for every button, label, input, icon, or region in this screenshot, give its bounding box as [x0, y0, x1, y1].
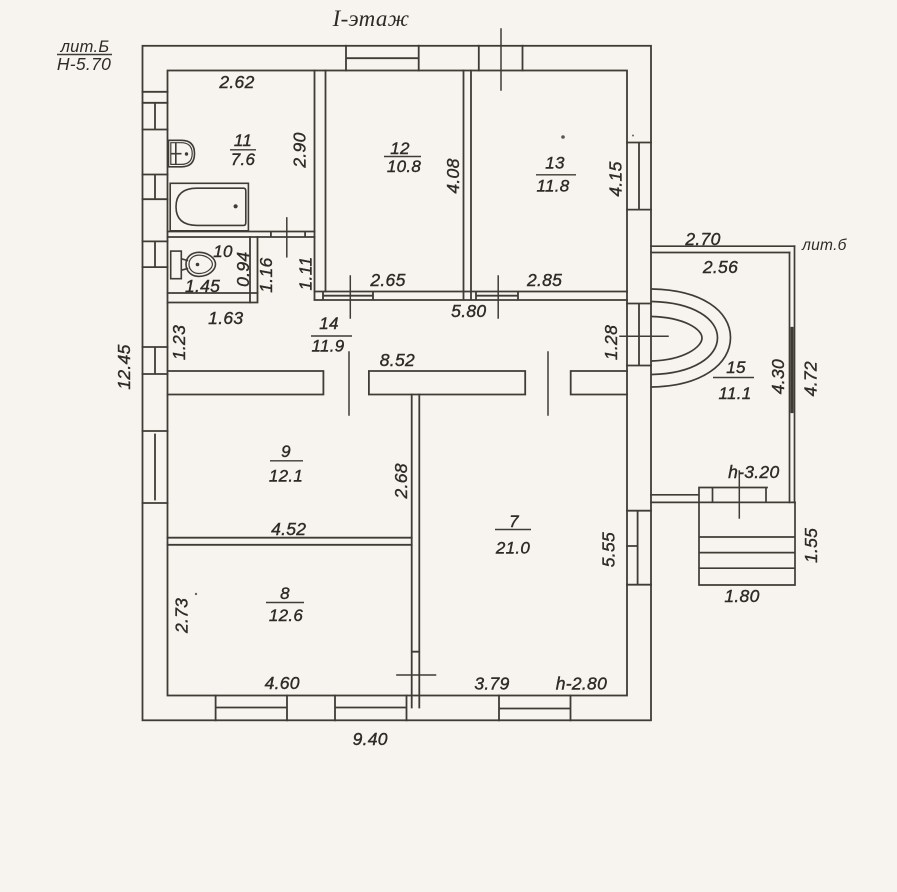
- wall W9 between rooms 9 and 8 (4.52): [168, 538, 412, 545]
- wall W2 between rooms 12 and 13: [464, 71, 472, 292]
- svg-text:11.9: 11.9: [311, 337, 344, 356]
- svg-text:2.65: 2.65: [369, 270, 405, 290]
- svg-text:1.23: 1.23: [169, 325, 189, 360]
- svg-text:10: 10: [213, 242, 233, 261]
- window B1 bottom wall: [216, 696, 287, 721]
- window T1 top wall: [346, 46, 419, 71]
- bathtub in room 11: [170, 183, 248, 231]
- svg-text:12.6: 12.6: [269, 606, 304, 625]
- svg-text:1.11: 1.11: [296, 257, 316, 291]
- annex top wall: [651, 246, 795, 252]
- window B2 bottom wall: [335, 696, 407, 721]
- wall W5 bathroom bottom: [168, 293, 258, 303]
- sink in room 11: [169, 140, 195, 167]
- room 7 label: [495, 512, 531, 558]
- svg-text:12.45: 12.45: [114, 344, 134, 389]
- window L3 left wall: [143, 241, 168, 267]
- svg-text:h-2.80: h-2.80: [556, 674, 607, 694]
- wall W7 corridor bottom (8.52): [168, 371, 628, 395]
- door tick bathroom (wall W3): [286, 218, 288, 257]
- room 9 label: [269, 442, 303, 486]
- window L1 left wall: [143, 92, 168, 130]
- svg-text:2.62: 2.62: [218, 72, 254, 92]
- svg-text:5.80: 5.80: [451, 301, 486, 321]
- stove arch arc 2: [652, 302, 718, 375]
- svg-text:5.55: 5.55: [599, 532, 619, 567]
- svg-text:7.6: 7.6: [231, 150, 256, 169]
- room 14 label: [311, 314, 352, 356]
- window R2 right wall (behind arch): [627, 304, 651, 366]
- svg-text:1.16: 1.16: [256, 257, 276, 292]
- room 11 label: [230, 131, 256, 169]
- svg-text:4.30: 4.30: [768, 359, 788, 394]
- annex window right wall: [791, 328, 794, 411]
- entrance opening top wall: [479, 46, 523, 71]
- dim tick on wall W6 left: [349, 276, 351, 318]
- leader line dim h-3.20: [738, 471, 740, 518]
- svg-text:15: 15: [726, 358, 746, 377]
- svg-text:1.45: 1.45: [185, 276, 220, 296]
- svg-text:4.08: 4.08: [443, 158, 463, 193]
- svg-text:I-этаж: I-этаж: [332, 6, 410, 31]
- svg-text:7: 7: [509, 512, 519, 531]
- door tick entrance top: [500, 29, 502, 90]
- annex room 15 bottom wall: [651, 488, 795, 503]
- svg-text:11: 11: [234, 131, 252, 150]
- svg-text:2.73: 2.73: [172, 598, 192, 634]
- wall W4 right of room 10: [250, 237, 258, 303]
- dim tick on wall W6 right: [497, 276, 499, 318]
- door tick corridor to room 7: [547, 352, 549, 415]
- toilet in room 10: [171, 251, 216, 279]
- window R3 right wall (room 7): [627, 511, 651, 585]
- wall W3 between rooms 11 and 10: [168, 232, 315, 238]
- svg-text:11.8: 11.8: [536, 177, 569, 196]
- speck in room 13: [561, 135, 565, 139]
- svg-text:1.80: 1.80: [724, 586, 759, 606]
- wall: exterior outline outer: [143, 46, 652, 721]
- svg-text:1.63: 1.63: [208, 308, 243, 328]
- annex right wall: [790, 246, 795, 502]
- room 13 label: [536, 154, 576, 196]
- svg-text:2.68: 2.68: [391, 463, 411, 499]
- svg-text:h-3.20: h-3.20: [728, 462, 779, 482]
- svg-text:3.79: 3.79: [474, 674, 509, 694]
- room 12 label: [384, 139, 421, 176]
- room 8 label: [266, 584, 304, 625]
- svg-text:1.55: 1.55: [801, 528, 821, 563]
- stairs: [699, 502, 795, 585]
- door tick corridor to room 9: [348, 352, 350, 415]
- wall W8 between rooms 9/8 and 7: [412, 395, 420, 708]
- svg-text:11.1: 11.1: [718, 384, 751, 403]
- speck left of room 8 label: [195, 593, 197, 595]
- leader line dim 1.28: [620, 335, 668, 337]
- svg-text:2.90: 2.90: [290, 132, 310, 168]
- svg-text:9: 9: [281, 442, 291, 461]
- svg-text:13: 13: [545, 154, 565, 173]
- speck near room 13 top right: [632, 135, 634, 137]
- svg-text:1.28: 1.28: [601, 325, 621, 360]
- svg-text:4.15: 4.15: [606, 161, 626, 196]
- wall W1 between rooms 11 and 12: [315, 71, 326, 300]
- window L2 left wall: [143, 175, 168, 200]
- svg-text:12: 12: [390, 139, 410, 158]
- stove arch arc 3: [652, 317, 702, 362]
- svg-text:8: 8: [280, 584, 290, 603]
- svg-text:12.1: 12.1: [269, 467, 303, 486]
- svg-text:4.60: 4.60: [265, 673, 300, 693]
- svg-text:2.85: 2.85: [526, 270, 562, 290]
- svg-text:10.8: 10.8: [387, 157, 422, 176]
- window L5 left wall: [143, 431, 168, 503]
- window L4 left wall: [143, 347, 168, 374]
- door tick room 7 to room 8: [397, 674, 436, 676]
- window R1 right wall (room 13): [627, 143, 651, 210]
- svg-text:Н-5.70: Н-5.70: [57, 54, 111, 74]
- svg-text:лит.б: лит.б: [801, 237, 848, 254]
- room 15 label: [713, 358, 754, 403]
- svg-text:9.40: 9.40: [353, 729, 388, 749]
- svg-text:14: 14: [319, 314, 339, 333]
- svg-text:21.0: 21.0: [495, 539, 531, 558]
- wall: exterior outline inner: [168, 71, 628, 696]
- wall W6 corridor top (5.80): [315, 292, 628, 301]
- underline lit.B: [57, 54, 112, 56]
- svg-text:2.70: 2.70: [684, 229, 720, 249]
- svg-text:8.52: 8.52: [380, 350, 415, 370]
- svg-text:4.52: 4.52: [271, 519, 306, 539]
- window B3 bottom wall: [499, 696, 571, 721]
- svg-text:4.72: 4.72: [801, 361, 821, 396]
- stove arch arc 1: [652, 289, 731, 387]
- svg-text:2.56: 2.56: [702, 257, 738, 277]
- svg-text:0.94: 0.94: [233, 252, 253, 287]
